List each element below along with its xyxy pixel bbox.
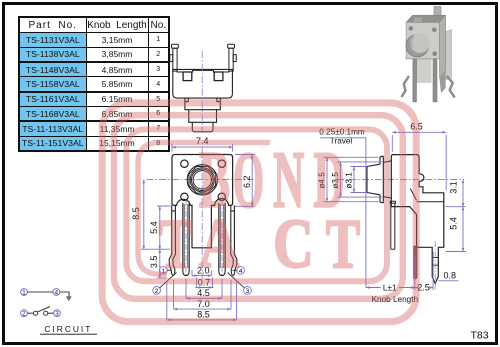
3d button bbox=[406, 34, 429, 57]
circuit pin 4 bbox=[53, 289, 60, 296]
front view corner hole bottom-right bbox=[218, 193, 225, 200]
side view dimension 2.5 and L±1 knob length bbox=[366, 251, 433, 290]
front view pin centrelines bbox=[186, 200, 222, 276]
front view dimension 7.0 bbox=[174, 280, 232, 309]
3d sheet between legs bbox=[416, 59, 432, 83]
side view dimension ø3.1 bbox=[351, 167, 368, 193]
front view pin callout 4 bbox=[233, 266, 245, 274]
watermark ring 1 bbox=[102, 103, 416, 322]
3d top face tab bbox=[413, 18, 423, 23]
side view dimension 3.1 bbox=[446, 180, 466, 207]
circuit actuator arrow bbox=[67, 297, 72, 301]
watermark ring 3 bbox=[126, 129, 387, 281]
top view contact slot right bbox=[214, 72, 223, 81]
front view dimension 8.5 left bbox=[141, 180, 170, 250]
front view left flange bbox=[172, 205, 176, 249]
front view corner hole top-left bbox=[181, 160, 188, 167]
top view knob step 2 bbox=[189, 110, 217, 123]
watermark letters BOND bbox=[159, 137, 361, 284]
front view right flange foot bbox=[231, 250, 237, 271]
front view centreline vertical bbox=[201, 148, 203, 279]
side view knob bbox=[367, 156, 391, 202]
circuit pin 3 bbox=[54, 310, 61, 317]
side view rear lead ticks bbox=[432, 258, 438, 266]
side view centreline bbox=[337, 179, 464, 181]
side view dimension ø3.5 bbox=[337, 162, 382, 197]
front view button inner circles bbox=[190, 168, 214, 192]
top view right flange post bbox=[229, 48, 233, 71]
circuit wire 2 bbox=[27, 312, 33, 314]
watermark ring 4 (left portion) bbox=[138, 143, 270, 275]
front view dimension 0.7 bbox=[196, 278, 214, 288]
top view shoulder lines bbox=[177, 69, 229, 72]
3d front leg right bbox=[433, 59, 437, 102]
side view dimension 5.4 bbox=[446, 207, 466, 252]
front view dimension 5.4 left bbox=[157, 206, 171, 249]
front view left flange foot bbox=[169, 250, 175, 271]
front view body bbox=[172, 155, 233, 248]
front view dimension 2.0 bbox=[192, 270, 211, 276]
front view dimension 4.5 bbox=[186, 279, 222, 299]
side view body outline bbox=[391, 155, 444, 284]
parts table bbox=[18, 16, 170, 152]
3d bent leg right bbox=[447, 76, 455, 98]
circuit contact right bbox=[44, 311, 48, 315]
3d top face bbox=[406, 15, 446, 22]
circuit wire from 4 to actuator bbox=[60, 292, 69, 297]
front view pin callout 1 bbox=[159, 266, 171, 274]
top view left flange post bbox=[173, 48, 177, 71]
top view knob step 1 bbox=[185, 98, 220, 110]
circuit switch lever bbox=[37, 307, 50, 313]
front view dimension 3.5 left bbox=[157, 249, 167, 278]
circuit pin 1 bbox=[21, 289, 28, 296]
3d bent leg left bbox=[402, 76, 410, 97]
3d front face bbox=[406, 22, 439, 59]
front view pin callout 3 bbox=[228, 273, 252, 295]
3d bracket lower bbox=[439, 70, 445, 93]
front view corner hole bottom-left bbox=[181, 193, 188, 200]
top view body bbox=[173, 69, 233, 98]
3d right face bbox=[439, 15, 445, 78]
side view front clip plate bbox=[390, 201, 395, 249]
side view dimension 6.5 bbox=[392, 132, 446, 190]
front view dimension 7.4 bbox=[172, 144, 233, 152]
front view pin callout 2 bbox=[153, 273, 177, 295]
circuit wire 1-4 bbox=[27, 291, 53, 293]
side view dimension ø4.5 bbox=[324, 157, 379, 201]
side view front pin (dark) bbox=[414, 246, 417, 279]
front view pin 2 (left) bbox=[183, 203, 189, 276]
side view rear lead centreline bbox=[434, 241, 436, 290]
3d corner screws bbox=[409, 26, 414, 31]
front view right flange bbox=[231, 205, 235, 249]
front view centreline horizontal bbox=[147, 179, 254, 181]
front view pin 3 (right) bbox=[219, 203, 225, 276]
front view dimension 6.2 bbox=[235, 155, 255, 207]
3d front leg left bbox=[413, 59, 417, 102]
front view button octagon ring bbox=[189, 167, 216, 194]
top view contact slot left bbox=[183, 72, 192, 81]
front view dimension 8.5 bottom bbox=[167, 282, 237, 320]
3d rear bracket top post bbox=[434, 7, 441, 21]
top view centreline bbox=[201, 51, 203, 131]
top view knob step 3 bbox=[192, 122, 213, 132]
watermark ring 2 bbox=[114, 115, 403, 299]
front view corner hole top-right bbox=[218, 160, 225, 167]
3d rear plate bbox=[443, 30, 452, 82]
side view internal step lines bbox=[410, 189, 443, 202]
circuit contact left bbox=[34, 311, 38, 315]
circuit pin 2 bbox=[21, 310, 28, 317]
circuit wire 3 bbox=[48, 312, 54, 314]
front view button outer circle bbox=[187, 165, 217, 195]
